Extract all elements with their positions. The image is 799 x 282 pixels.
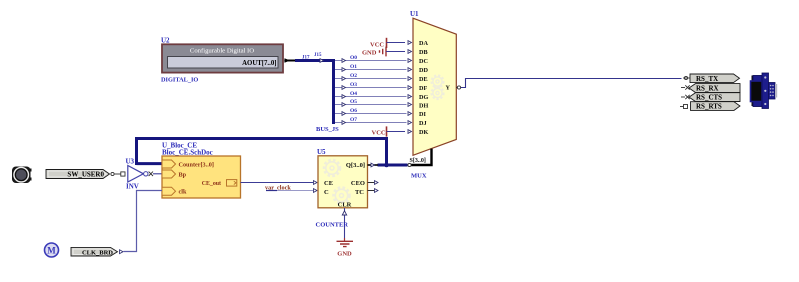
svg-text:Bloc_CE.SchDoc: Bloc_CE.SchDoc xyxy=(162,148,213,156)
svg-text:MUX: MUX xyxy=(411,172,427,179)
svg-text:Y: Y xyxy=(446,85,451,92)
svg-text:GND: GND xyxy=(337,251,352,258)
svg-text:O1: O1 xyxy=(350,64,357,70)
svg-text:AOUT[7..0]: AOUT[7..0] xyxy=(242,60,276,67)
svg-text:DA: DA xyxy=(419,40,428,47)
svg-text:O6: O6 xyxy=(350,108,357,114)
svg-text:U5: U5 xyxy=(317,148,326,156)
svg-text:VCC: VCC xyxy=(370,42,384,49)
svg-text:DB: DB xyxy=(419,49,428,56)
svg-text:O5: O5 xyxy=(350,99,357,105)
svg-text:DI: DI xyxy=(419,111,426,118)
svg-text:Bp: Bp xyxy=(179,171,187,178)
svg-text:RS_CTS: RS_CTS xyxy=(696,94,722,102)
svg-text:C: C xyxy=(324,189,329,196)
svg-text:SW_USER0: SW_USER0 xyxy=(67,171,104,179)
svg-text:Q[3..0]: Q[3..0] xyxy=(346,162,365,169)
svg-text:DJ: DJ xyxy=(419,120,427,127)
svg-text:RS_RTS: RS_RTS xyxy=(696,103,722,111)
svg-text:RS_RX: RS_RX xyxy=(696,85,719,93)
svg-text:CE: CE xyxy=(324,180,333,187)
svg-text:U2: U2 xyxy=(161,37,170,45)
svg-text:DE: DE xyxy=(419,76,428,83)
svg-text:Configurable Digital IO: Configurable Digital IO xyxy=(190,48,254,55)
svg-text:O2: O2 xyxy=(350,73,357,79)
svg-text:M: M xyxy=(47,246,56,256)
svg-text:DD: DD xyxy=(419,67,428,74)
svg-text:CEO: CEO xyxy=(351,180,365,187)
svg-text:TC: TC xyxy=(355,189,364,196)
svg-text:RS_TX: RS_TX xyxy=(696,75,718,83)
svg-text:U1: U1 xyxy=(410,10,419,18)
svg-text:U3: U3 xyxy=(126,158,135,166)
svg-text:DF: DF xyxy=(419,85,427,92)
svg-text:O7: O7 xyxy=(350,117,357,123)
svg-text:CE_out: CE_out xyxy=(202,181,221,187)
svg-text:O3: O3 xyxy=(350,82,357,88)
svg-text:COUNTER: COUNTER xyxy=(316,221,349,228)
svg-text:DK: DK xyxy=(419,129,428,136)
svg-text:GND: GND xyxy=(362,50,377,57)
svg-text:J17: J17 xyxy=(302,55,310,60)
svg-text:VCC: VCC xyxy=(372,130,386,137)
svg-text:Counter[3..0]: Counter[3..0] xyxy=(179,161,214,168)
svg-text:DC: DC xyxy=(419,58,428,65)
svg-text:DH: DH xyxy=(419,103,428,110)
svg-text:O0: O0 xyxy=(350,55,357,61)
svg-text:CLK_BRD: CLK_BRD xyxy=(82,249,113,256)
svg-text:DG: DG xyxy=(419,94,428,101)
svg-text:CLR: CLR xyxy=(338,201,352,208)
svg-text:INV: INV xyxy=(126,183,139,191)
svg-text:J15: J15 xyxy=(314,53,322,58)
svg-text:BUS_JS: BUS_JS xyxy=(316,126,339,133)
svg-text:clk: clk xyxy=(179,189,187,196)
svg-text:DIGITAL_IO: DIGITAL_IO xyxy=(161,76,198,83)
svg-text:S[3..0]: S[3..0] xyxy=(410,158,426,164)
svg-text:O4: O4 xyxy=(350,91,357,97)
